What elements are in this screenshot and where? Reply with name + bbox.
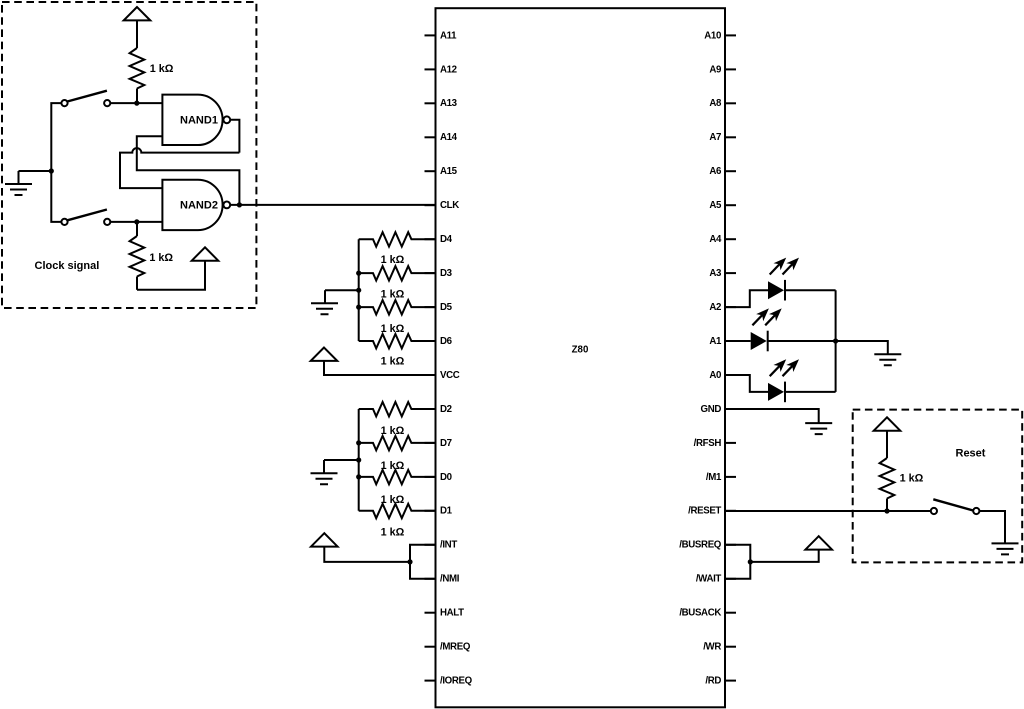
resistor R9 1 kOhm to D0 [359,470,436,484]
pin D7 (left 13) [425,442,436,444]
svg-text:1 kΩ: 1 kΩ [150,63,174,75]
switch SW1 upper pole [61,100,67,106]
svg-text:A8: A8 [709,98,722,109]
led LED2 emission arrows [752,315,762,326]
wire A0 to LED3 [725,375,768,392]
led LED1 emission arrows [770,264,780,275]
svg-text:A9: A9 [709,64,722,75]
svg-text:A1: A1 [709,336,722,347]
wire CLK net NAND2 to Z80 [239,204,435,206]
wire switch to ground [979,511,1005,543]
svg-text:A4: A4 [709,234,722,245]
pin D0 (left 14) [425,476,436,478]
pin /IOREQ (left 20) [425,680,436,682]
svg-text:A13: A13 [440,98,458,109]
pin VCC (left 11) [425,374,436,376]
pin A10 (right 1) [725,34,736,36]
ground GND pin [805,423,832,434]
svg-text:A11: A11 [440,30,457,41]
pin A7 (right 4) [725,136,736,138]
svg-text:1 kΩ: 1 kΩ [381,425,405,437]
pin A2 (right 9) [725,306,736,308]
svg-text:/MREQ: /MREQ [440,642,471,653]
pin A8 (right 3) [725,102,736,104]
svg-text:/BUSACK: /BUSACK [679,608,721,619]
svg-text:D3: D3 [440,268,453,279]
pin A4 (right 7) [725,238,736,240]
junction /BUSREQ-/WAIT mid [748,559,753,564]
ground upper network [325,289,359,291]
junction left rail / ground [49,168,54,173]
pin /RD (right 20) [725,680,736,682]
wire /RESET net to switch [725,510,931,512]
led LED1 (A2) [768,281,784,299]
pin HALT (left 18) [425,612,436,614]
resistor R6 1 kOhm to D6 [359,334,436,348]
resistor R11 1 kOhm (reset pull-up) [880,458,895,499]
svg-text:D0: D0 [440,472,452,483]
led LED2 (A1) [751,332,767,350]
wire NAND1 output to NAND2 input A (with hop) [230,120,239,153]
svg-text:1 kΩ: 1 kΩ [381,289,405,301]
wire left rail of switches [51,103,61,222]
wire GND pin to ground [725,409,819,423]
resistor R7 1 kOhm to D2 [359,402,436,416]
wire LED2 to cathode bus [768,340,836,342]
pin A11 (left 1) [425,34,436,36]
power VCC arrow clock bottom [192,247,219,260]
pin D5 (left 9) [425,306,436,308]
svg-text:D4: D4 [440,234,453,245]
svg-text:A14: A14 [440,132,458,143]
pin /M1 (right 14) [725,476,736,478]
pin GND (right 12) [725,408,736,410]
pin D6 (left 10) [425,340,436,342]
svg-text:/BUSREQ: /BUSREQ [679,540,722,551]
svg-text:/IOREQ: /IOREQ [440,676,473,687]
power VCC arrow for /BUSREQ /WAIT [805,536,832,549]
wire A1 to LED2 [725,340,751,342]
svg-text:1 kΩ: 1 kΩ [381,494,405,506]
power VCC arrow reset [874,417,901,430]
svg-text:/NMI: /NMI [440,574,460,585]
svg-text:1 kΩ: 1 kΩ [381,526,405,538]
wire switch to NAND1 input A [110,102,162,104]
resistor R1 1 kOhm (clock top) [130,48,145,89]
junction bus/D5 [356,305,361,310]
svg-text:A7: A7 [709,132,721,143]
svg-text:Z80: Z80 [572,344,589,355]
wire data bus tie (upper network vertical) [358,239,360,341]
pin CLK (left 6) [425,204,436,206]
nand gate NAND1 [162,95,222,145]
pin /BUSREQ (right 16) [725,544,736,546]
wire LED3 to cathode bus [785,391,836,393]
wire tie to VCC arrow [750,550,818,562]
svg-text:VCC: VCC [440,370,460,381]
svg-text:A2: A2 [709,302,721,313]
svg-text:1 kΩ: 1 kΩ [381,254,405,266]
svg-text:NAND2: NAND2 [180,199,218,211]
pin /BUSACK (right 18) [725,612,736,614]
junction /INT-/NMI mid [407,559,412,564]
wire cathode bus to ground [836,341,888,354]
svg-text:A10: A10 [704,30,721,41]
pin /WAIT (right 17) [725,578,736,580]
svg-text:/INT: /INT [440,540,457,551]
junction R11 / reset net [884,508,889,513]
wire R2 to VCC arrow [137,261,205,290]
svg-text:D7: D7 [440,438,452,449]
svg-text:GND: GND [701,404,722,415]
pin A5 (right 6) [725,204,736,206]
wire switch to NAND2 input B [110,221,162,223]
pin /MREQ (left 19) [425,646,436,648]
svg-text:D2: D2 [440,404,452,415]
svg-text:/WR: /WR [703,642,721,653]
wire VCC arrow to /INT-/NMI tie [324,547,410,562]
svg-text:/WAIT: /WAIT [696,574,722,585]
svg-text:A3: A3 [709,268,722,279]
svg-text:A5: A5 [709,200,722,211]
junction bus/ground tap lower [356,457,361,462]
resistor R5 1 kOhm to D5 [359,300,436,314]
svg-text:HALT: HALT [440,608,464,619]
svg-text:/M1: /M1 [706,472,722,483]
pin /RESET (right 15) [725,510,736,512]
svg-text:D5: D5 [440,302,453,313]
pin A12 (left 2) [425,68,436,70]
wire data bus tie (lower network vertical) [358,409,360,511]
junction bus/ground tap [356,288,361,293]
power VCC arrow for /INT /NMI [311,533,338,546]
wire /BUSREQ-/WAIT tie [725,545,750,579]
switch SW2 reset pushbutton [931,508,937,514]
svg-text:A6: A6 [709,166,722,177]
svg-text:/RFSH: /RFSH [694,438,722,449]
junction R2 / NAND2 input [134,219,139,224]
switch SW1 lower pole [61,219,67,225]
wire /INT-/NMI tie [410,545,436,579]
svg-text:D6: D6 [440,336,453,347]
pin D1 (left 15) [425,510,436,512]
led LED3 emission arrows [770,366,780,377]
wire LED cathode bus vertical [835,290,837,392]
pin D3 (left 8) [425,272,436,274]
svg-text:1 kΩ: 1 kΩ [381,355,405,367]
resistor R8 1 kOhm to D7 [359,436,436,450]
wire LED1 to cathode bus [785,289,836,291]
svg-text:1 kΩ: 1 kΩ [149,252,173,264]
junction bus/D0 [356,474,361,479]
resistor R10 1 kOhm to D1 [359,504,436,518]
junction R1 / NAND1 input [134,101,139,106]
pin A3 (right 8) [725,272,736,274]
power VCC arrow for VCC pin [311,348,338,361]
svg-text:CLK: CLK [440,200,459,211]
pin D2 (left 12) [425,408,436,410]
svg-text:/RD: /RD [705,676,721,687]
nand gate NAND2 [162,180,222,230]
ground clock section [19,170,52,172]
clock signal dashed enclosure [2,2,256,308]
ground LED cathodes [874,354,901,365]
svg-text:1 kΩ: 1 kΩ [900,473,924,485]
ic U1 Z80 body [436,8,726,707]
pin /RFSH (right 13) [725,442,736,444]
junction bus/D7 [356,440,361,445]
pin A13 (left 3) [425,102,436,104]
led LED3 (A0) [768,383,784,401]
ground reset [992,543,1019,554]
pin A1 (right 10) [725,340,736,342]
resistor R2 1 kOhm (clock bottom) [136,222,138,236]
power VCC arrow top [124,7,151,20]
pin A14 (left 4) [425,136,436,138]
pin D4 (left 7) [425,238,436,240]
pin A9 (right 2) [725,68,736,70]
wire NAND2 output to NAND1 input B [137,136,240,205]
junction cathode bus / A1 row [833,338,838,343]
reset dashed enclosure [853,410,1023,563]
svg-text:D1: D1 [440,506,453,517]
svg-text:A0: A0 [709,370,721,381]
pin A0 (right 11) [725,374,736,376]
resistor R3 1 kOhm to D4 [359,232,436,246]
svg-text:NAND1: NAND1 [180,114,218,126]
svg-text:1 kΩ: 1 kΩ [381,460,405,472]
pin A6 (right 5) [725,170,736,172]
junction bus/D3 [356,271,361,276]
svg-text:/RESET: /RESET [688,506,721,517]
svg-text:A12: A12 [440,64,457,75]
resistor R4 1 kOhm to D3 [359,266,436,280]
svg-text:Clock signal: Clock signal [35,260,100,272]
pin /INT (left 16) [425,544,436,546]
wire VCC arrow to VCC pin [324,361,436,375]
pin /NMI (left 17) [425,578,436,580]
ground lower network [324,459,359,461]
svg-text:1 kΩ: 1 kΩ [381,323,405,335]
junction NAND2 output node [237,202,242,207]
svg-text:Reset: Reset [956,448,986,460]
svg-text:A15: A15 [440,166,458,177]
pin /WR (right 19) [725,646,736,648]
wire A2 to LED D1a [725,290,768,307]
pin A15 (left 5) [425,170,436,172]
